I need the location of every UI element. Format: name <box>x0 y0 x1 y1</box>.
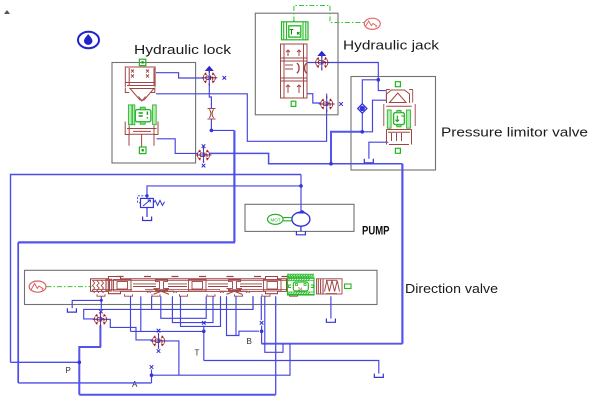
spool rod 2 <box>208 284 262 287</box>
svg-text:PUMP: PUMP <box>362 223 390 237</box>
T piston 1 <box>156 280 168 291</box>
tank below direction valve left <box>67 308 76 312</box>
svg-text:T: T <box>195 348 200 357</box>
wire lock lower port across <box>156 94 327 142</box>
wire sensor3 to sensor4 <box>108 319 152 340</box>
wire port p2 <box>130 296 132 331</box>
tank below direction valve right <box>326 319 335 323</box>
wire P line <box>11 361 80 363</box>
junction dot 375 <box>150 373 154 377</box>
sensor Ch3 <box>93 311 109 327</box>
plug mark below sensor2 <box>202 164 206 168</box>
sensor Ch1 <box>201 70 217 86</box>
junction dot tank branch <box>100 299 103 302</box>
wire port to sensor3 <box>100 314 102 320</box>
check valve <box>358 104 367 113</box>
wire relief to pump <box>147 186 301 199</box>
wire port p7 <box>181 296 221 326</box>
hydraulic jack component <box>281 20 309 106</box>
signal dash-dot line to scope (jack) <box>294 6 364 23</box>
plug mark A col <box>150 365 154 369</box>
relief valve <box>138 196 165 208</box>
wire pump suction <box>300 227 302 232</box>
wire sensor2 feed <box>157 139 198 154</box>
wire sensor1 down to orifice <box>209 84 211 130</box>
wire T line <box>204 361 379 374</box>
junction dot B col <box>260 330 264 334</box>
wire thick run to left <box>18 241 235 243</box>
wire B column <box>261 326 263 344</box>
svg-text:Pressure limitor valve: Pressure limitor valve <box>441 125 588 140</box>
wire thick bottom right run <box>262 343 403 345</box>
wire right thick drop <box>401 164 403 344</box>
pressure limitor valve box <box>351 77 436 171</box>
scope icon top <box>364 18 380 29</box>
tank in pressure box <box>364 159 373 163</box>
sensor Ch4 <box>151 333 167 349</box>
wire H4 row <box>131 330 204 332</box>
spool rod 1 <box>133 284 187 287</box>
plug mark above sensor4 <box>157 329 161 333</box>
wire bottom long run <box>79 394 275 396</box>
svg-text:A: A <box>132 380 138 389</box>
top port bumps <box>117 276 289 278</box>
plug mark B col <box>260 321 264 325</box>
wire sensor4 plug column <box>151 370 153 383</box>
pump <box>292 210 310 231</box>
plug mark above sensor6 <box>326 94 328 98</box>
sensor Ch5 <box>314 55 330 71</box>
cell block 1 <box>114 280 132 292</box>
wire valve left tank drop <box>252 296 254 309</box>
hydraulic lock box <box>112 63 196 164</box>
direction valve assembly <box>91 274 352 296</box>
plug mark above sensor3 <box>99 310 103 314</box>
wire jack sensor5 out <box>307 63 378 80</box>
wire port p14 <box>265 296 283 352</box>
wire valve port to left tank <box>72 296 101 309</box>
junction dot pump top <box>299 184 303 188</box>
junction dot sensor line <box>377 78 381 82</box>
tank below pump <box>296 231 305 235</box>
wire row 309 <box>84 296 253 319</box>
wire tank below valve right <box>330 296 332 318</box>
wire port p15 to bottom <box>275 296 277 395</box>
plug mark right of sensor6 <box>339 102 343 106</box>
wire pump drop <box>300 175 302 213</box>
wire thick jog left <box>79 347 101 395</box>
wire junction to thick riser <box>211 129 234 131</box>
pump box <box>245 204 354 231</box>
wire port p5 <box>161 296 206 318</box>
svg-text:Hydraulic jack: Hydraulic jack <box>343 37 440 52</box>
wire port p6 <box>172 296 213 322</box>
svg-text:Hydraulic lock: Hydraulic lock <box>134 42 232 57</box>
wire sensor4 right <box>165 341 179 375</box>
motor <box>268 214 292 224</box>
junction dot relief top <box>145 194 148 197</box>
cell block 2 <box>189 280 207 292</box>
svg-text:B: B <box>247 337 252 346</box>
wire port p11 <box>235 296 237 335</box>
wire thick check riser <box>331 132 362 164</box>
wire port pB feed <box>227 296 260 335</box>
valve outer body <box>91 277 287 294</box>
junction dot P <box>78 361 82 365</box>
hydraulic jack box <box>255 13 338 115</box>
tank bottom right <box>374 374 383 378</box>
fluid properties icon <box>78 32 99 48</box>
wire main thick riser <box>233 131 235 243</box>
junction dot check riser <box>361 130 365 134</box>
svg-text:Ch: Ch <box>205 75 214 82</box>
wire lock to sensor1 <box>156 73 204 78</box>
plug mark above sensor5 <box>318 52 325 59</box>
wire T column <box>203 326 205 361</box>
plug mark above sensor2 <box>202 144 206 148</box>
wire to check valve <box>362 80 378 132</box>
plug mark below sensor4 <box>157 349 161 353</box>
T piston 2 <box>229 280 241 291</box>
svg-text:P: P <box>66 366 71 375</box>
bottom port feet <box>97 294 298 296</box>
hydraulic lock component <box>125 59 158 153</box>
svg-text:MOT: MOT <box>271 217 281 222</box>
svg-text:Direction valve: Direction valve <box>405 281 498 296</box>
corner mark <box>4 10 11 15</box>
wire outer left top <box>11 175 302 363</box>
left spring block <box>93 281 104 294</box>
plug mark above sensor1 <box>206 67 213 74</box>
wire check to valve port <box>362 100 386 132</box>
sensor Ch2 <box>196 147 212 163</box>
direction valve box <box>25 270 378 304</box>
tank below relief valve <box>143 208 152 221</box>
orifice restrictor <box>208 109 216 120</box>
junction dot orifice <box>210 129 214 133</box>
svg-text:34: 34 <box>298 287 303 292</box>
plug mark T col <box>202 321 206 325</box>
wire A line <box>18 382 151 384</box>
wire pressure valve to tank <box>369 142 388 159</box>
wire port pB <box>260 296 262 320</box>
sensor Ch6 <box>319 96 335 112</box>
wire port p3 <box>140 296 142 331</box>
wire left column A <box>17 242 19 383</box>
wire row 375 <box>152 344 291 376</box>
junction dot T col <box>202 330 206 334</box>
pressure limitor component <box>384 82 415 154</box>
signal dash-dot line (direction valve) <box>47 286 92 288</box>
right spring cap <box>317 279 343 294</box>
wire port p4 <box>151 296 153 309</box>
plug mark right of sensor1 <box>223 76 227 80</box>
wire sensor line into valve <box>378 80 386 91</box>
wire jack to sensor6 <box>307 94 320 103</box>
wire sensor3 down thick <box>99 326 101 348</box>
scope icon direction valve <box>29 281 46 292</box>
junction dot long run <box>329 162 333 166</box>
cell block 3 <box>264 280 282 292</box>
wire sensor2 long run <box>210 153 403 163</box>
